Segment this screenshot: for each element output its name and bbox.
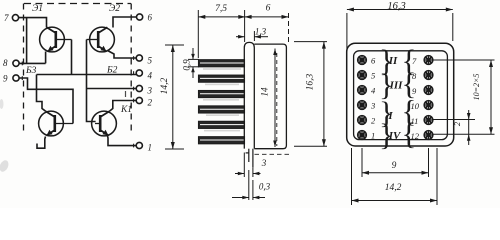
wire T3 collector to pin4 net: [37, 75, 46, 112]
svg-text:5: 5: [371, 71, 375, 81]
svg-text:1: 1: [148, 143, 153, 153]
wire T2 emitter to pin5: [108, 51, 137, 59]
hidden bottom edge dashed: [255, 153, 293, 155]
wire T4 emitter to pin1: [107, 135, 136, 146]
pin 4 terminal: [136, 70, 152, 81]
svg-text:4: 4: [148, 71, 153, 81]
pin 10 bottom view: [411, 101, 433, 111]
pin 2 bottom view: [358, 116, 376, 126]
wire pin3 branch: [87, 88, 137, 90]
transistor T2 top-right: [87, 27, 115, 52]
svg-text:9: 9: [392, 161, 397, 171]
pin 3 terminal: [136, 85, 152, 95]
svg-text:7,5: 7,5: [215, 4, 227, 14]
wire T3 emitter stub: [37, 137, 46, 149]
wire T2 base down to T4 base: [87, 40, 96, 122]
dimension 2 last pitch: [467, 110, 471, 145]
extension line pin12 row: [433, 133, 495, 135]
svg-text:8: 8: [3, 58, 8, 68]
dimension 0,9 lead thickness: [188, 48, 199, 78]
svg-text:Э2: Э2: [109, 4, 120, 14]
pin 11 bottom view: [411, 116, 433, 126]
svg-text:3: 3: [261, 158, 267, 168]
svg-text:6: 6: [148, 13, 153, 23]
wire pin7 to T1 collector: [19, 18, 47, 28]
edge smudge bottom left: [0, 159, 10, 173]
svg-text:16,3: 16,3: [306, 73, 316, 90]
transistor T4 bottom-right: [92, 111, 117, 136]
edge smudge left mid: [0, 99, 4, 109]
svg-text:Б2: Б2: [106, 66, 118, 76]
dimension 14,2 bottom: [352, 148, 438, 205]
svg-text:II: II: [388, 55, 398, 67]
svg-text:4: 4: [371, 86, 376, 96]
pin 9 bottom view: [412, 86, 433, 96]
svg-text:1: 1: [371, 131, 375, 141]
svg-text:14,2: 14,2: [160, 77, 170, 94]
svg-text:16,3: 16,3: [387, 1, 405, 12]
svg-text:Э1: Э1: [32, 4, 43, 14]
svg-text:{: {: [402, 116, 417, 151]
dimension 0,3 tab thickness: [232, 170, 265, 200]
package leads stack (6 hatched leads): [198, 60, 244, 144]
svg-text:III: III: [389, 80, 404, 92]
body hidden line dashed: [276, 53, 278, 146]
pin 5 terminal: [136, 55, 152, 66]
pin 6 bottom view: [358, 56, 376, 66]
svg-text:14: 14: [260, 87, 270, 97]
dimension 3 tab offset: [235, 153, 261, 178]
svg-text:6: 6: [266, 4, 271, 14]
extension line body left at top: [244, 10, 246, 42]
wire pin9 to T3 base: [19, 78, 73, 124]
svg-text:10=2×5: 10=2×5: [472, 74, 481, 101]
dimension 7,5 lead length: [198, 15, 245, 19]
dashed package boundary right edge: [130, 4, 132, 134]
svg-text:Б3: Б3: [25, 66, 37, 76]
svg-text:6: 6: [371, 56, 376, 66]
dimension 6 body depth: [245, 13, 289, 45]
pin 5 bottom view: [358, 71, 376, 81]
stray dash near K1: [125, 91, 127, 97]
svg-text:3: 3: [147, 86, 153, 96]
wire T1 base down to pin4 net: [71, 40, 73, 75]
pin 9 terminal: [3, 74, 19, 84]
dashed package boundary left edge: [23, 4, 25, 132]
pin 8 terminal: [3, 58, 19, 68]
svg-text:1,3: 1,3: [255, 27, 267, 37]
svg-text:0,9: 0,9: [182, 59, 192, 71]
dimension 16,3 top: [347, 8, 453, 50]
svg-text:I: I: [387, 110, 393, 122]
wire pin6 to T2 collector: [113, 17, 137, 28]
package outline inner: [354, 51, 448, 140]
svg-text:IV: IV: [388, 130, 402, 142]
svg-text:2: 2: [148, 98, 153, 108]
svg-text:К1: К1: [120, 105, 132, 115]
pin 12 bottom view: [411, 131, 433, 141]
extension line pin7 row: [433, 59, 495, 61]
package outline outer: [347, 43, 454, 146]
extension line lead tips: [197, 10, 199, 58]
pin 6 terminal: [137, 13, 153, 23]
pin 8 bottom view: [412, 71, 433, 81]
svg-text:3: 3: [370, 101, 375, 111]
svg-text:5: 5: [148, 56, 153, 66]
pin 1 bottom view: [358, 131, 376, 141]
wire junction pin7 down to pin8 wire: [26, 18, 28, 64]
svg-text:2: 2: [371, 116, 376, 126]
pin 4 bottom view: [358, 86, 376, 96]
package body side view outline: [244, 42, 286, 148]
wire pin4 horizontal net: [37, 74, 137, 76]
pin 3 bottom view: [358, 101, 376, 111]
svg-text:7: 7: [4, 13, 9, 23]
dimension 14,2 left vertical: [165, 45, 184, 149]
dashed package boundary top edge: [24, 3, 131, 5]
transistor T3 bottom-left: [39, 111, 73, 136]
pin 7 bottom view: [412, 56, 433, 66]
wire T4 collector to pin2: [109, 101, 136, 112]
scan haze between leads: [203, 68, 241, 131]
wire pin8 / T1 emitter: [19, 52, 45, 64]
pin 1 terminal: [136, 142, 152, 152]
pin 2 terminal: [136, 97, 152, 107]
transistor T1 top-left: [40, 27, 72, 52]
svg-text:9: 9: [3, 74, 8, 84]
pin 7 terminal: [4, 13, 19, 23]
junction ticks on pin wires: [22, 56, 133, 147]
mounting tab bottom: [246, 149, 253, 168]
extension line pin11 row: [433, 119, 475, 121]
dimension 1,3 lip: [236, 31, 268, 41]
dimension 10=2x5 pin pitch: [489, 60, 493, 134]
dimension 14 inner height: [273, 49, 277, 148]
svg-text:14,2: 14,2: [385, 183, 402, 193]
dimension 16,3 middle right: [294, 42, 327, 147]
dimension 9 pin columns: [362, 148, 429, 177]
svg-text:0,3: 0,3: [259, 182, 271, 192]
